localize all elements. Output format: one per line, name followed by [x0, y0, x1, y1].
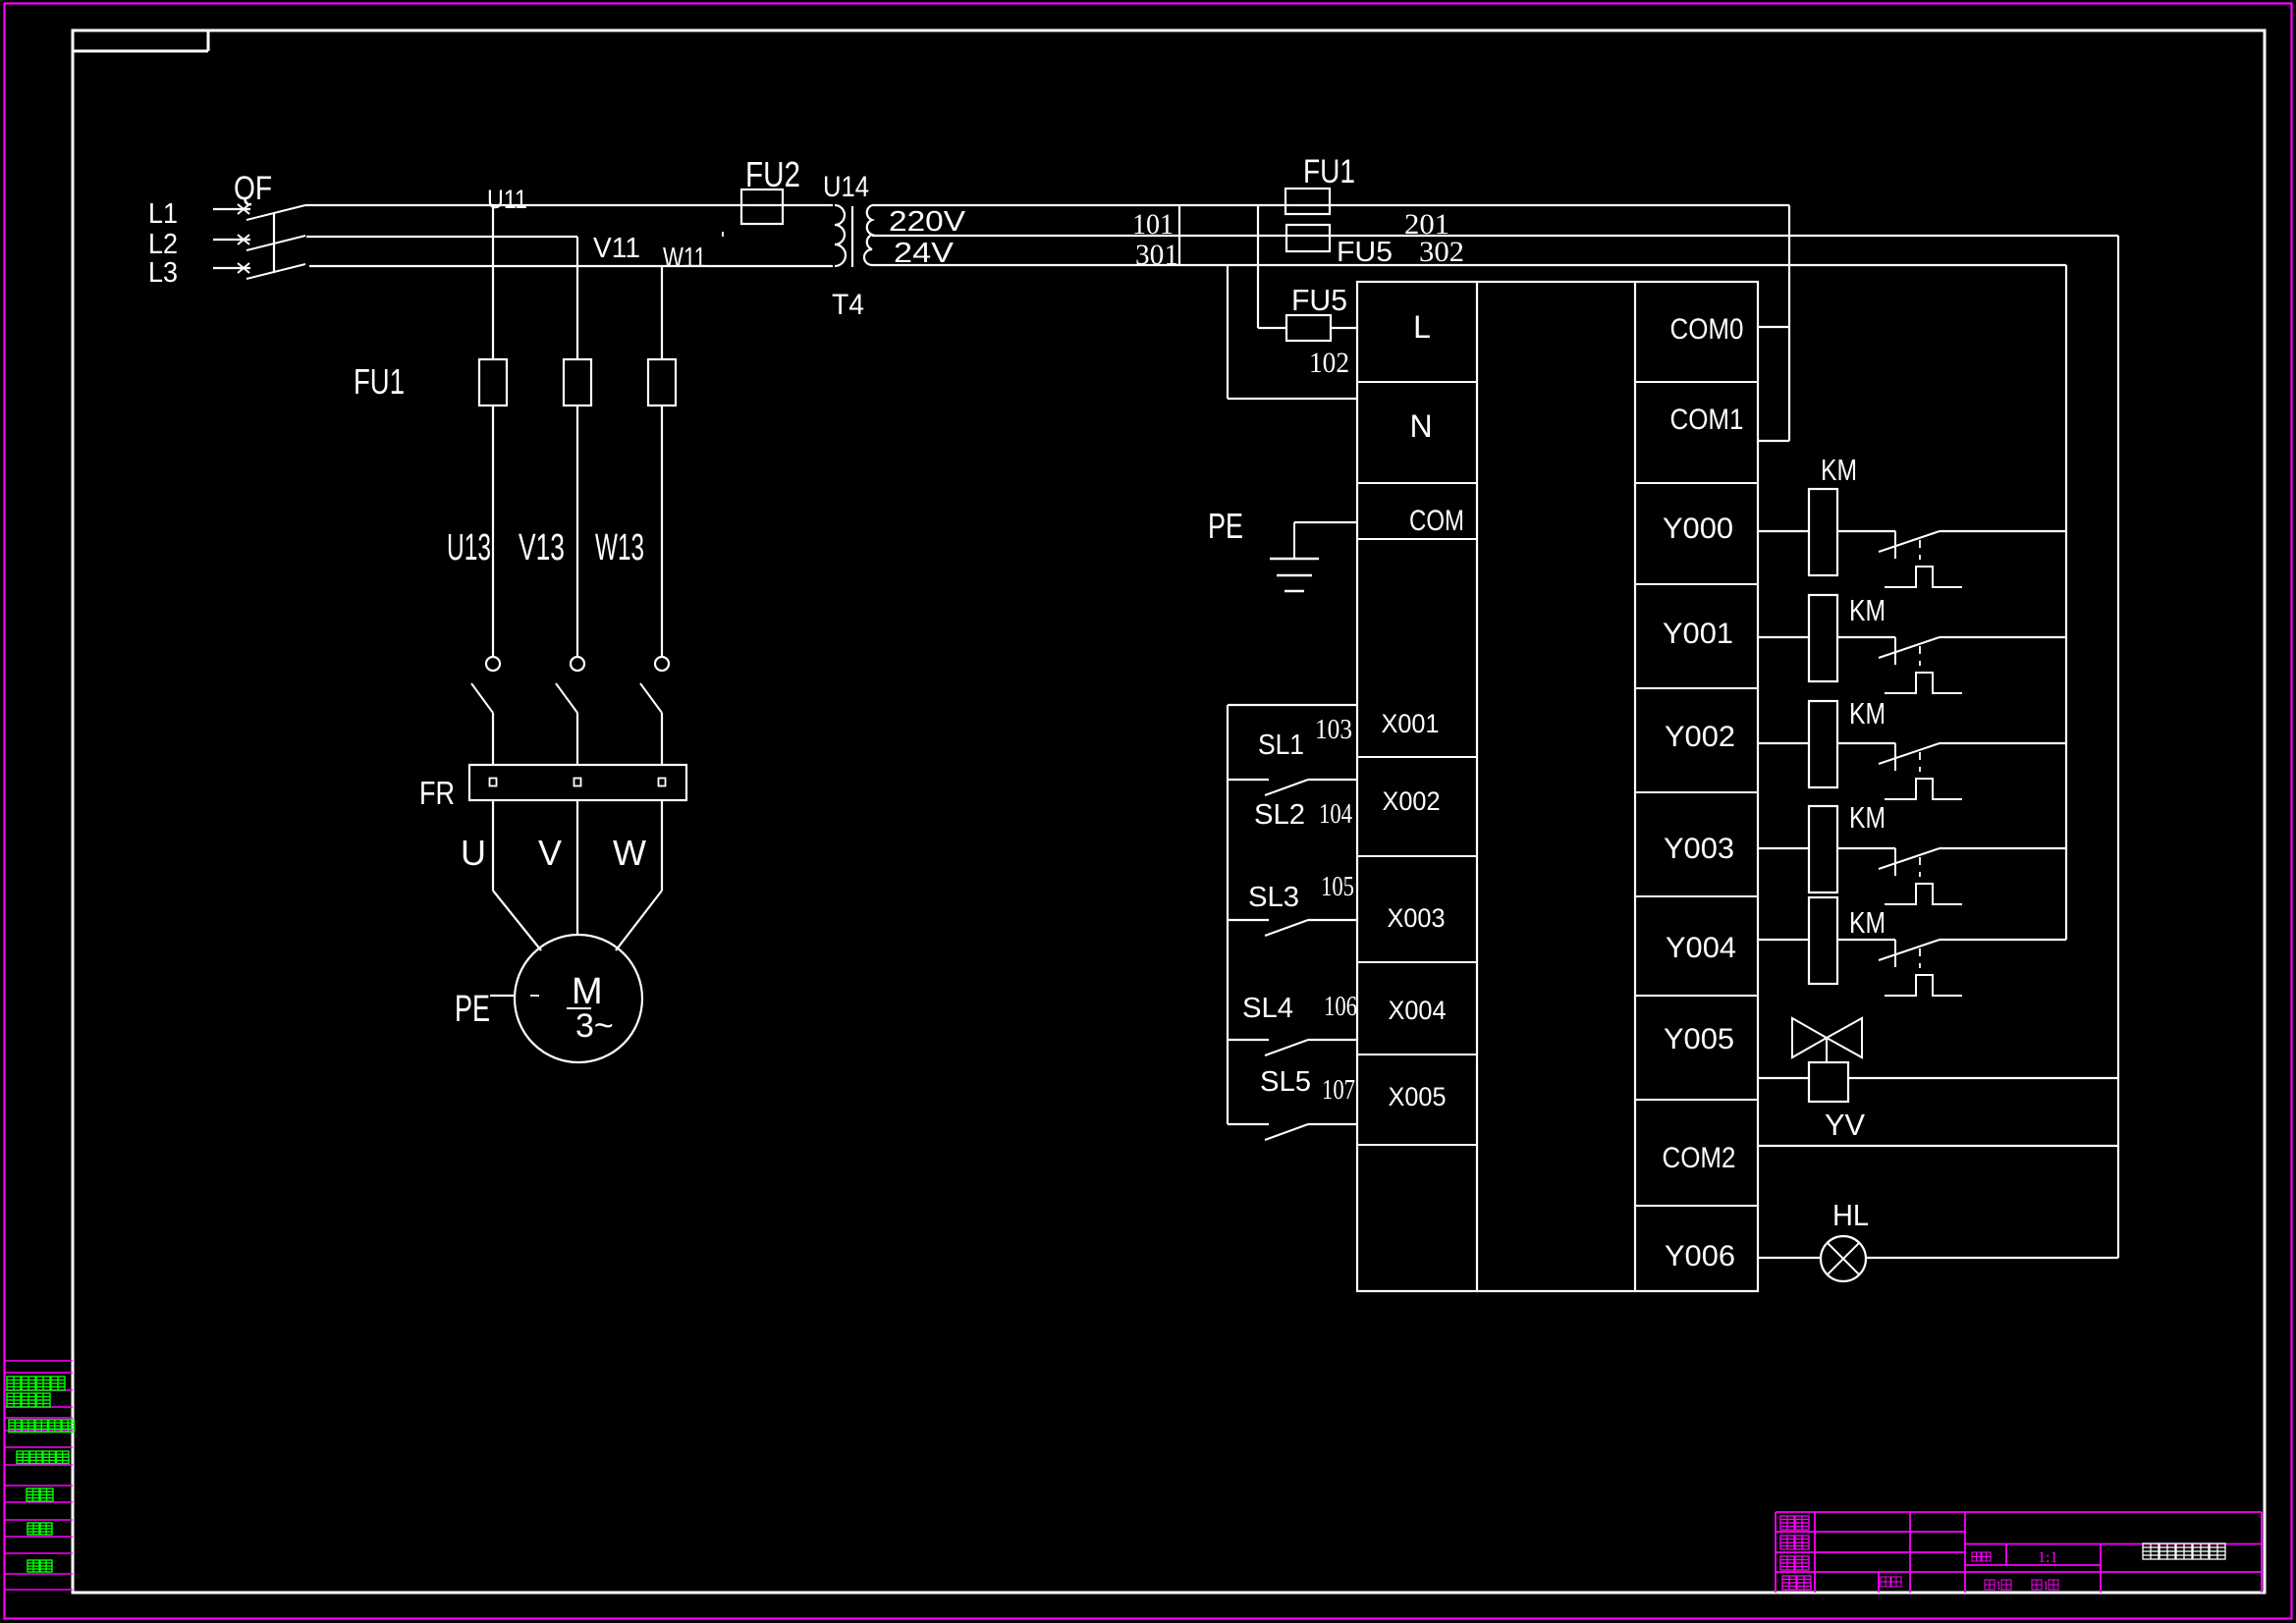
NC contact blade [1879, 637, 1940, 658]
svg-text:103: 103 [1315, 715, 1352, 745]
register text 签名 [27, 1488, 39, 1501]
PE dash inside motor [530, 995, 539, 997]
fuse FU1 phase 2 [564, 359, 591, 406]
ground symbol [1293, 522, 1295, 559]
wire fuse to contactor phase 3 [661, 406, 663, 657]
wire net 201 drop [1788, 205, 1790, 441]
contactor coil KM [1809, 595, 1837, 681]
register text 件登记 [7, 1393, 21, 1407]
svg-text:FU5: FU5 [1291, 283, 1347, 317]
svg-text:X004: X004 [1389, 996, 1447, 1025]
net-label divider tick [1178, 205, 1180, 265]
wire FR to motor [492, 800, 494, 891]
contactor coil KM [1809, 489, 1837, 575]
contactor terminal phase 3 [655, 657, 669, 671]
svg-text:220V: 220V [889, 206, 966, 238]
svg-text:V11: V11 [593, 233, 640, 264]
register text 日期 (2) [27, 1560, 39, 1572]
contact actuator dashed link [1919, 646, 1921, 654]
contact actuator dashed link [1919, 540, 1921, 548]
wire lamp to bus B [1866, 1257, 2118, 1259]
fuse FU2 [741, 189, 783, 224]
register text 日期 (1) [27, 1523, 39, 1535]
wire stub 107 from bus [1228, 1123, 1269, 1125]
wire output to coil [1758, 939, 1809, 941]
QF pole link bar [273, 213, 275, 273]
svg-text:Y004: Y004 [1666, 932, 1736, 964]
wire fuse to contactor phase 2 [576, 406, 578, 657]
svg-text:COM1: COM1 [1670, 404, 1744, 436]
contactor coil KM [1809, 897, 1837, 984]
svg-text:COM0: COM0 [1670, 313, 1744, 346]
wire FR to motor [576, 800, 578, 935]
contact actuator notch [1885, 673, 1962, 693]
svg-text:HL: HL [1832, 1198, 1869, 1232]
NC contact bar [1894, 743, 1896, 771]
wire net 101 drop to FU5 [1257, 205, 1259, 328]
FR heater element [574, 779, 581, 786]
L1 wire-end cross [238, 204, 249, 214]
svg-text:SL2: SL2 [1254, 799, 1305, 831]
wire stub 106 from bus [1228, 1039, 1269, 1041]
title text 学号 [1881, 1577, 1890, 1587]
PLC outer box [1357, 282, 1758, 1291]
svg-text:Y001: Y001 [1663, 618, 1733, 650]
NC contact bar [1894, 940, 1896, 967]
svg-text:COM2: COM2 [1663, 1142, 1736, 1174]
svg-text:X001: X001 [1382, 709, 1440, 738]
svg-text:FR: FR [419, 775, 455, 811]
svg-text:U: U [461, 833, 486, 873]
NC contact blade [1879, 531, 1940, 552]
QF pole blade L3 [246, 264, 305, 279]
contactor KM main contact blade phase 3 [640, 683, 662, 713]
svg-text:X005: X005 [1389, 1082, 1447, 1111]
svg-text:Y003: Y003 [1664, 833, 1734, 865]
svg-text:L1: L1 [148, 198, 178, 230]
lamp cross strokes [1828, 1243, 1860, 1275]
NC contact blade [1879, 940, 1940, 960]
phase wire drop 1 [492, 205, 494, 359]
svg-text:105: 105 [1321, 872, 1354, 902]
phase wire drop 3 [661, 266, 663, 359]
wire contact to bus A [1940, 939, 2066, 941]
svg-text:104: 104 [1319, 799, 1352, 830]
svg-text:Y000: Y000 [1663, 513, 1733, 545]
L2 lead-in wire [213, 239, 250, 241]
wire valve to bus B [1848, 1077, 2118, 1079]
svg-text:V13: V13 [519, 527, 565, 568]
limit switch SL5 blade [1265, 1124, 1308, 1140]
NC contact blade [1879, 743, 1940, 764]
sheet text 共1张 [1985, 1580, 1995, 1590]
transformer core [851, 206, 853, 267]
svg-text:QF: QF [234, 170, 272, 207]
wire to N terminal [1228, 398, 1357, 400]
contactor coil KM [1809, 806, 1837, 893]
wire coil to contact [1837, 742, 1895, 744]
svg-text:FU2: FU2 [745, 154, 800, 194]
drawing title 控制电路图 [2143, 1543, 2159, 1559]
wire output to coil [1758, 636, 1809, 638]
contactor terminal phase 2 [571, 657, 584, 671]
wire contact to FR phase 1 [492, 713, 494, 765]
svg-text:T4: T4 [832, 289, 864, 321]
wire net 101/201 [872, 204, 1789, 206]
wire net 102 to L terminal [1331, 327, 1357, 329]
wire stub 105 from bus [1228, 919, 1269, 921]
wire contact to bus A [1940, 530, 2066, 532]
contact actuator notch [1885, 779, 1962, 799]
PLC output terminal cell lines [1635, 381, 1758, 383]
grip tick on V11 wire [722, 232, 724, 237]
wire U11 (net 101 primary side) [305, 204, 833, 206]
fuse FU1 lower (net 301-302) [1286, 225, 1330, 251]
indicator lamp HL [1821, 1236, 1866, 1281]
QF pole blade L1 [246, 205, 305, 220]
wire net 105 to PLC [1308, 919, 1357, 921]
contact actuator dashed link [1919, 857, 1921, 865]
wire Y006 to lamp [1758, 1257, 1821, 1259]
svg-text:W13: W13 [595, 527, 644, 568]
fuse FU5 (net 101-102) [1286, 315, 1331, 341]
svg-text:107: 107 [1322, 1075, 1355, 1106]
register column lines (left margin) [5, 1360, 73, 1362]
svg-text:X003: X003 [1388, 903, 1446, 933]
motor lead bend left [493, 891, 541, 950]
svg-text:SL1: SL1 [1258, 730, 1304, 761]
wire net 107 to PLC [1308, 1123, 1357, 1125]
wire fuse to contactor phase 1 [492, 406, 494, 657]
wire 24V return [872, 264, 2066, 266]
wire output to coil [1758, 530, 1809, 532]
sheet text 第1张 [2032, 1580, 2042, 1590]
transformer secondary winding [864, 205, 872, 265]
wire net 301/302 [872, 235, 2118, 237]
limit switch SL2 blade [1265, 780, 1308, 795]
svg-text:3~: 3~ [575, 1007, 614, 1045]
wire to COM0 [1758, 326, 1789, 328]
phase wire drop 2 [576, 237, 578, 359]
wire COM2 to bus B [1758, 1145, 2118, 1147]
svg-text:L: L [1413, 309, 1431, 345]
PLC output column divider [1634, 282, 1636, 1291]
contact actuator dashed link [1919, 948, 1921, 956]
FR heater element [659, 779, 666, 786]
fuse FU1 upper (net 101-201) [1285, 189, 1330, 214]
svg-text:U14: U14 [823, 171, 869, 203]
svg-text:X002: X002 [1383, 786, 1441, 816]
svg-text:KM: KM [1849, 800, 1886, 835]
wire output to coil [1758, 847, 1809, 849]
motor M 3~ [515, 935, 642, 1062]
title text 比例 [1972, 1552, 1981, 1561]
contact actuator dashed link [1919, 752, 1921, 760]
svg-text:302: 302 [1419, 236, 1464, 268]
L2 wire-end cross [238, 235, 249, 244]
wire Y005 to valve [1758, 1077, 1809, 1079]
svg-text:106: 106 [1324, 992, 1357, 1022]
svg-text:102: 102 [1309, 347, 1349, 379]
switch common bus [1227, 705, 1229, 1124]
solenoid actuator box [1809, 1062, 1848, 1102]
svg-text:KM: KM [1821, 453, 1857, 487]
contact actuator notch [1885, 975, 1962, 996]
svg-text:1:1: 1:1 [2038, 1549, 2057, 1566]
transformer T4 primary winding [835, 205, 846, 266]
svg-text:FU1: FU1 [354, 361, 405, 402]
svg-text:FU5: FU5 [1337, 237, 1393, 268]
svg-text:KM: KM [1849, 593, 1886, 627]
svg-text:W: W [613, 833, 646, 873]
wire FR to motor [661, 800, 663, 891]
title block frame [1776, 1511, 2262, 1513]
register text 旧底图总号 [9, 1420, 22, 1433]
svg-text:U13: U13 [447, 527, 491, 568]
wire coil to contact [1837, 847, 1895, 849]
svg-text:Y006: Y006 [1665, 1240, 1735, 1272]
svg-text:Y002: Y002 [1665, 721, 1735, 753]
L3 wire-end cross [238, 263, 249, 273]
top-left notch box [73, 50, 208, 53]
svg-text:N: N [1409, 408, 1432, 444]
24V return bus A [2065, 265, 2067, 940]
wire COM to ground [1294, 521, 1357, 523]
solenoid valve YV body [1792, 1018, 1827, 1057]
fuse FU1 phase 3 [648, 359, 676, 406]
contactor KM main contact blade phase 1 [471, 683, 493, 713]
L3 lead-in wire [213, 267, 250, 269]
wire stub 104 from bus [1228, 779, 1269, 781]
title text 班级 [1782, 1576, 1796, 1590]
svg-text:COM: COM [1409, 505, 1464, 537]
NC contact blade [1879, 848, 1940, 869]
svg-text:L3: L3 [148, 257, 178, 289]
NC contact bar [1894, 848, 1896, 876]
wire coil to contact [1837, 636, 1895, 638]
contactor KM main contact blade phase 2 [556, 683, 577, 713]
QF pole blade L2 [246, 236, 305, 250]
wire output to coil [1758, 742, 1809, 744]
PLC input column divider [1476, 282, 1478, 1291]
wire net 104 to PLC [1308, 779, 1357, 781]
wire net 106 to PLC [1308, 1039, 1357, 1041]
svg-text:YV: YV [1825, 1108, 1865, 1142]
wire contact to bus A [1940, 847, 2066, 849]
svg-text:L2: L2 [148, 229, 178, 260]
svg-text:W11: W11 [663, 243, 706, 274]
svg-text:SL4: SL4 [1242, 993, 1293, 1024]
NC contact bar [1894, 531, 1896, 559]
L1 lead-in wire [213, 208, 250, 210]
contact actuator notch [1885, 567, 1962, 587]
PLC input terminal cell lines [1357, 381, 1477, 383]
NC contact bar [1894, 637, 1896, 665]
svg-text:KM: KM [1849, 696, 1886, 730]
title text 设计 [1780, 1516, 1794, 1530]
contactor coil KM [1809, 701, 1837, 787]
thermal relay FR box [469, 765, 686, 800]
wire contact to FR phase 3 [661, 713, 663, 765]
wire to COM1 [1758, 440, 1789, 442]
fuse FU1 phase 1 [479, 359, 507, 406]
FR heater element [490, 779, 497, 786]
svg-text:SL5: SL5 [1260, 1066, 1311, 1098]
wire contact to bus A [1940, 636, 2066, 638]
contact actuator notch [1885, 884, 1962, 904]
net 302 bus B [2117, 236, 2119, 1258]
svg-text:V: V [538, 833, 562, 873]
wire W11 [309, 265, 833, 267]
motor M underline [567, 1007, 591, 1009]
wire V11 [306, 236, 577, 238]
contactor terminal phase 1 [486, 657, 500, 671]
valve stem [1826, 1038, 1828, 1062]
wire net 103 to X001 [1228, 704, 1357, 706]
svg-text:PE: PE [1208, 506, 1243, 546]
svg-text:KM: KM [1849, 905, 1886, 940]
wire to fuse FU5 [1258, 327, 1286, 329]
register text 底图总号 [17, 1451, 29, 1464]
wire coil to contact [1837, 530, 1895, 532]
wire contact to bus A [1940, 742, 2066, 744]
wire contact to FR phase 2 [576, 713, 578, 765]
register text 借(通)用 [7, 1377, 21, 1390]
svg-text:PE: PE [455, 989, 490, 1030]
wire coil to contact [1837, 939, 1895, 941]
title text 校核 [1780, 1536, 1794, 1549]
limit switch SL4 blade [1265, 1040, 1308, 1055]
PE wire to motor [490, 995, 515, 997]
wire 24V return drop to N [1227, 265, 1229, 399]
svg-text:FU1: FU1 [1303, 153, 1355, 190]
svg-text:SL3: SL3 [1248, 882, 1299, 913]
svg-text:Y005: Y005 [1664, 1023, 1734, 1055]
motor lead bend right [616, 891, 662, 950]
svg-text:M: M [572, 971, 603, 1012]
limit switch SL3 blade [1265, 920, 1308, 936]
title text 审核 [1780, 1556, 1794, 1570]
